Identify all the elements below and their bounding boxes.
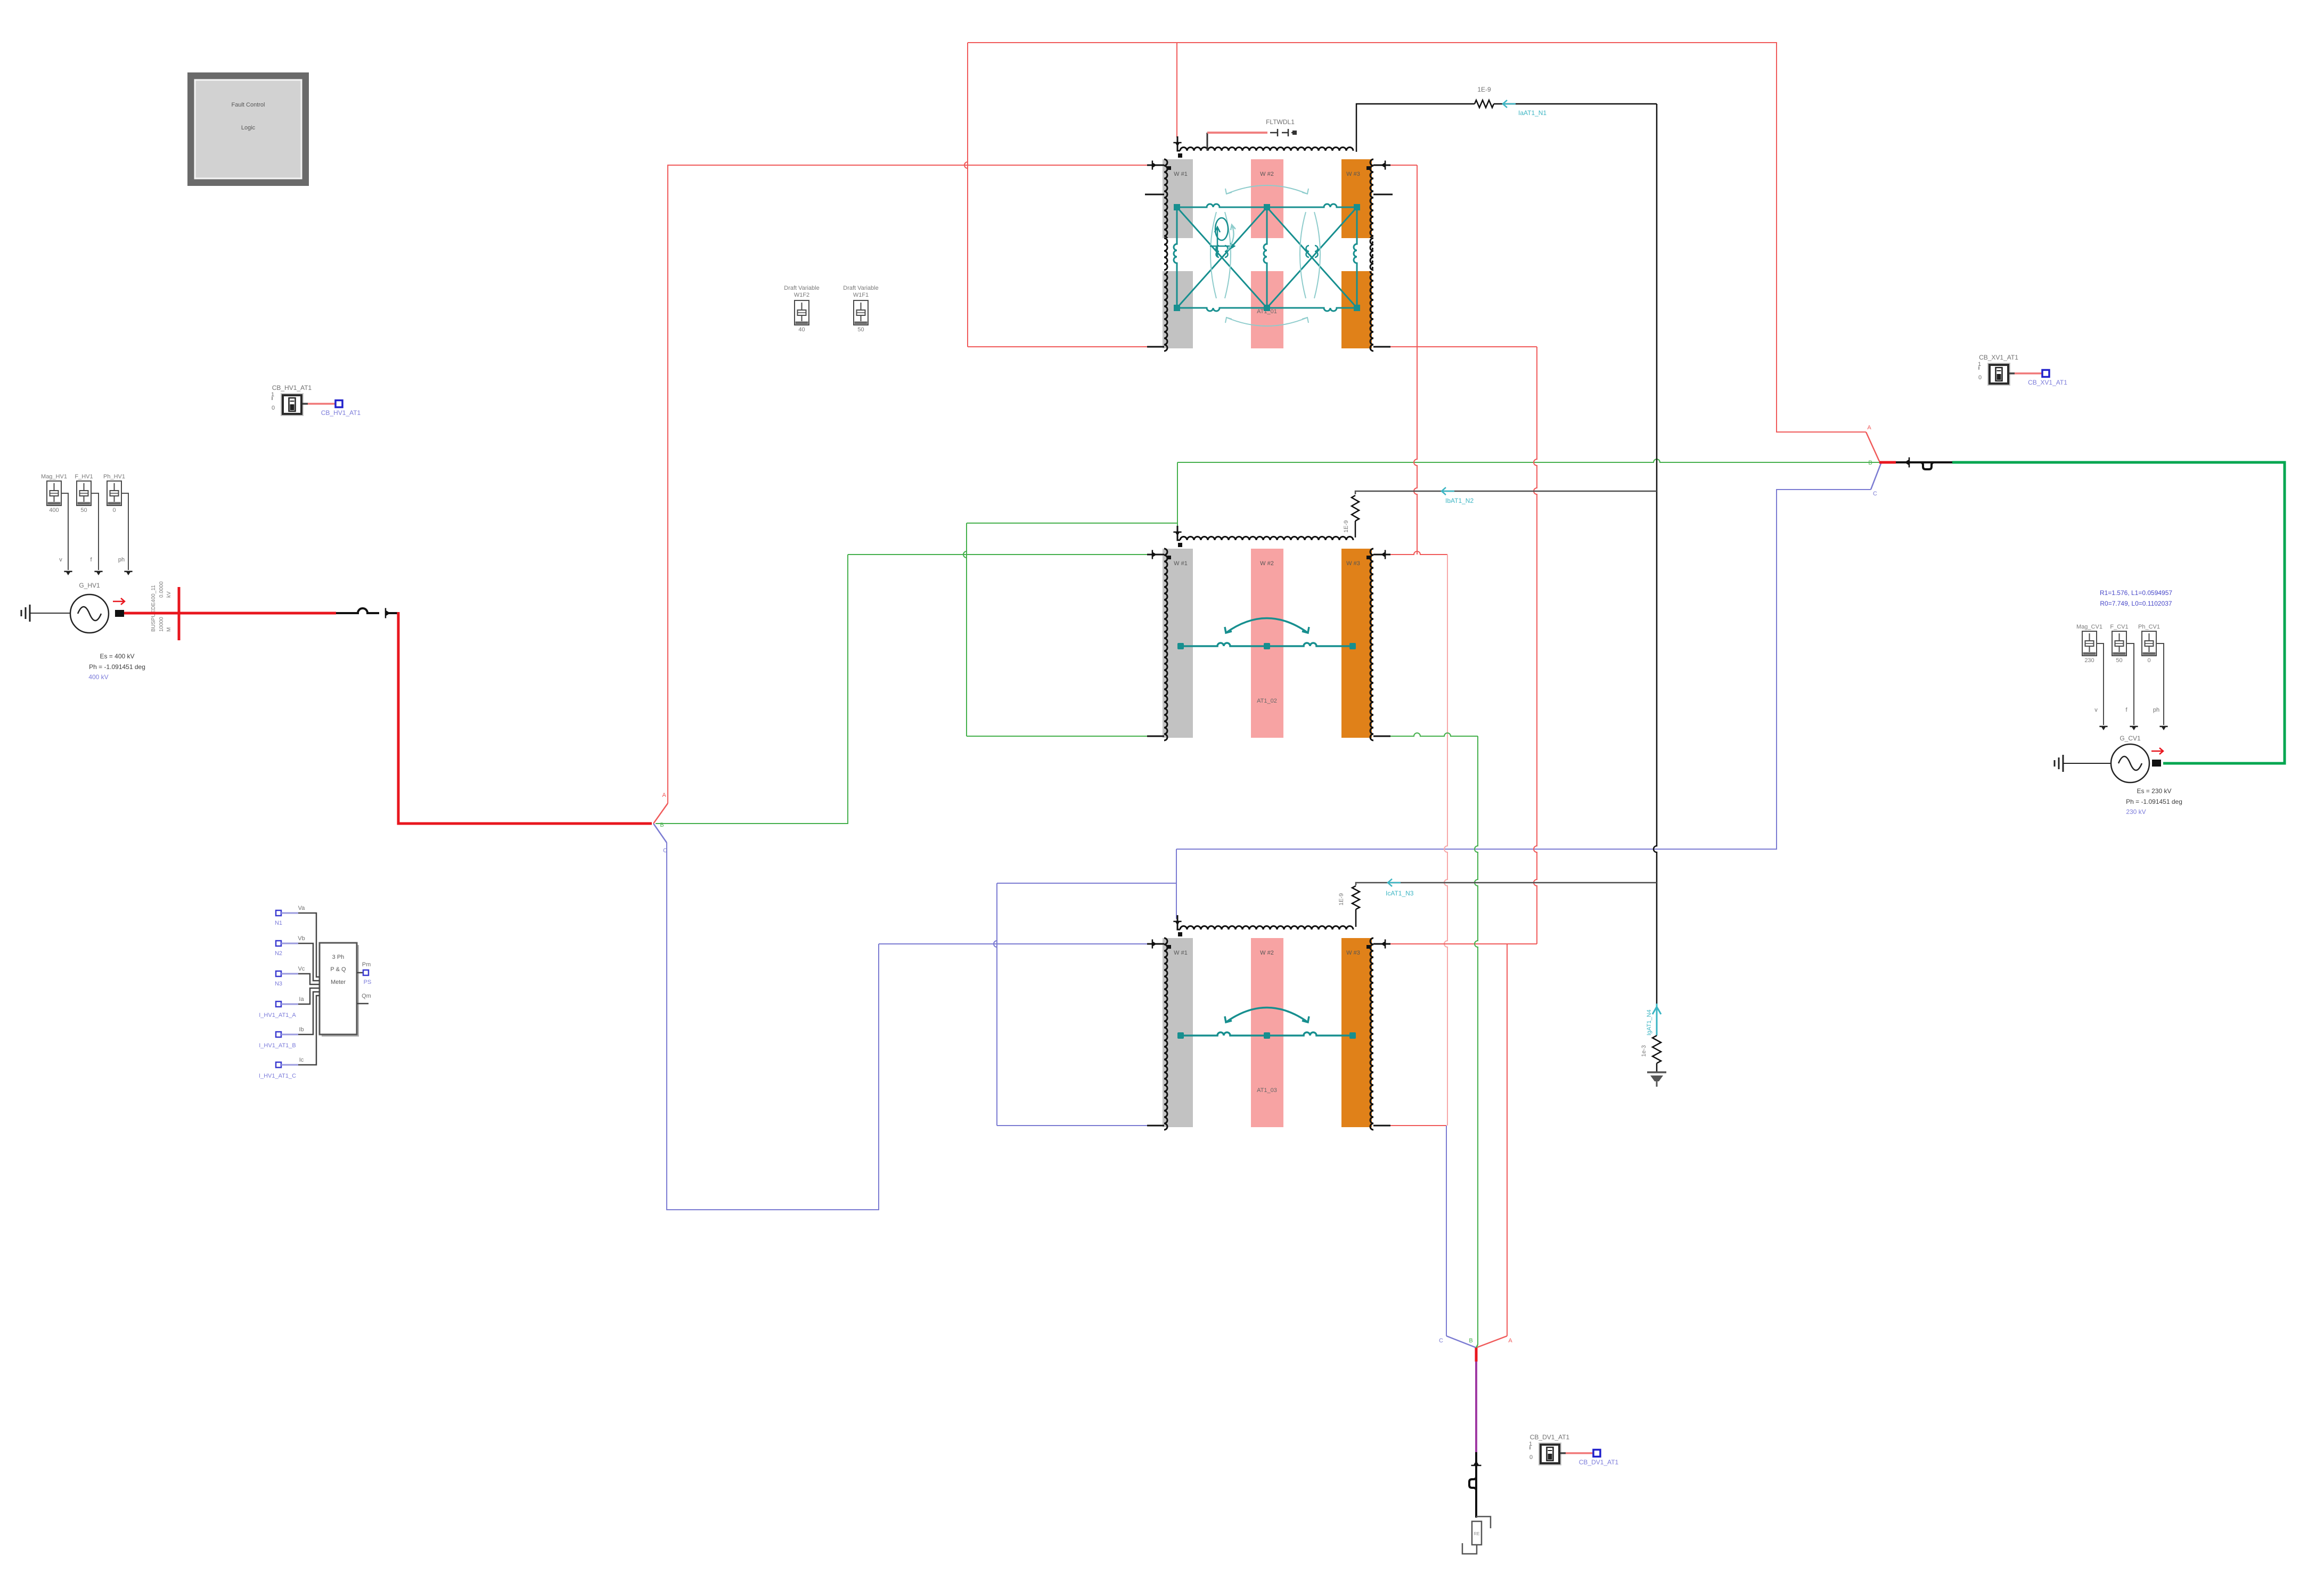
wire phase A feed (red) bbox=[668, 165, 1150, 803]
wire unit1 W3-top drop (red x=2661) bbox=[1390, 165, 1417, 555]
meter 3-phase P&Q bbox=[320, 943, 359, 1037]
svg-text:1e-3: 1e-3 bbox=[1641, 1045, 1647, 1057]
svg-text:N1: N1 bbox=[275, 920, 282, 926]
svg-text:W #1: W #1 bbox=[1174, 560, 1188, 567]
transformer AT1_01 winding W2 bar bbox=[1251, 159, 1283, 348]
svg-text:1E-9: 1E-9 bbox=[1338, 893, 1345, 906]
wire green main B (y=868) bbox=[1177, 459, 1879, 462]
svg-text:P & Q: P & Q bbox=[330, 966, 346, 973]
svg-text:10000: 10000 bbox=[159, 617, 165, 632]
svg-text:230: 230 bbox=[2084, 657, 2094, 664]
svg-text:Ia: Ia bbox=[299, 996, 304, 1003]
svg-text:CB_XV1_AT1: CB_XV1_AT1 bbox=[1979, 354, 2018, 361]
wire HV to breakout (thick red) bbox=[398, 612, 652, 824]
meter output Qm bbox=[357, 993, 371, 1004]
svg-text:CB_DV1_AT1: CB_DV1_AT1 bbox=[1579, 1458, 1619, 1466]
svg-text:IbAT1_N2: IbAT1_N2 bbox=[1445, 497, 1474, 504]
svg-text:0: 0 bbox=[1529, 1454, 1533, 1461]
transformer AT1_02 winding W3 bar bbox=[1341, 549, 1373, 740]
svg-text:CB_DV1_AT1: CB_DV1_AT1 bbox=[1530, 1433, 1570, 1441]
svg-text:1: 1 bbox=[1978, 361, 1981, 368]
slider W1F2 (draft variable) bbox=[784, 285, 819, 333]
transformer AT1_03 coupling icon bbox=[1181, 1008, 1353, 1036]
svg-text:Ph = -1.091451 deg: Ph = -1.091451 deg bbox=[89, 663, 145, 671]
slider Mag_CV1 bbox=[2076, 624, 2102, 664]
transformer AT1_01 label bbox=[1257, 308, 1277, 315]
svg-text:B: B bbox=[1868, 460, 1872, 466]
wire neutral unit3 row (gray y=1657) bbox=[1356, 883, 1657, 885]
transformer AT1_01 winding W1 bar bbox=[1163, 159, 1193, 351]
fault control logic block bbox=[187, 72, 309, 186]
svg-text:Ph_HV1: Ph_HV1 bbox=[103, 474, 125, 480]
transformer AT1_01 winding W3 bar bbox=[1341, 159, 1373, 351]
wire XV with current arrow (black) bbox=[1896, 458, 1952, 470]
transformer AT1_02 tertiary winding FLTWD bbox=[1173, 526, 1353, 547]
ground (G_HV1) bbox=[21, 605, 71, 622]
svg-text:0: 0 bbox=[2147, 657, 2150, 664]
svg-text:kV: kV bbox=[166, 591, 172, 598]
transformer AT1_02 winding W2 bar bbox=[1251, 549, 1283, 738]
wire neutral unit2 row (gray y=922) bbox=[1355, 491, 1657, 494]
wire phase C feed (blue) bbox=[667, 843, 1150, 1210]
ground (G_CV1) bbox=[2055, 755, 2111, 772]
transformer AT1_02 winding W1 bar bbox=[1163, 549, 1193, 740]
wire slider ph to G_HV1 bbox=[118, 493, 133, 575]
svg-text:Logic: Logic bbox=[241, 125, 256, 131]
transformer AT1_01 W1 terminals bbox=[1147, 160, 1164, 347]
svg-text:Draft Variable: Draft Variable bbox=[843, 285, 878, 291]
bus BUSPUEDE400_11 bbox=[151, 581, 179, 640]
svg-text:A: A bbox=[1508, 1338, 1512, 1344]
svg-text:G_CV1: G_CV1 bbox=[2120, 735, 2141, 742]
current label IaAT1_N1 bbox=[1503, 100, 1546, 117]
wire neutral purple bbox=[1475, 1348, 1478, 1452]
svg-text:Es = 230 kV: Es = 230 kV bbox=[2137, 787, 2171, 795]
svg-text:Vb: Vb bbox=[298, 935, 305, 942]
svg-text:R0=7.749, L0=0.1102037: R0=7.749, L0=0.1102037 bbox=[2100, 600, 2172, 607]
svg-text:B: B bbox=[1469, 1338, 1472, 1344]
meter input Vb bbox=[275, 935, 320, 981]
transformer AT1_01 W3 terminals bbox=[1373, 160, 1390, 347]
svg-text:IaAT1_N1: IaAT1_N1 bbox=[1518, 109, 1546, 117]
wire HV main (thick red) with current arrow bbox=[124, 608, 398, 618]
svg-text:N2: N2 bbox=[275, 950, 282, 957]
transformer AT1_01 mesh nodes bbox=[1174, 204, 1360, 311]
current label IbAT1_N2 bbox=[1442, 487, 1474, 504]
svg-text:PS: PS bbox=[364, 979, 372, 985]
svg-text:230 kV: 230 kV bbox=[2126, 808, 2146, 816]
wire slider v to G_HV1 bbox=[59, 493, 72, 575]
wire unit1 W3-bottom drop (red x=2886) bbox=[1390, 347, 1537, 944]
wire A drop to bottom breakout (red x=2830) bbox=[1507, 944, 1508, 1336]
svg-text:M: M bbox=[166, 627, 172, 632]
svg-text:Qm: Qm bbox=[362, 993, 371, 999]
svg-text:W #2: W #2 bbox=[1260, 560, 1274, 567]
line parameters text bbox=[2100, 589, 2172, 607]
svg-text:C: C bbox=[1439, 1338, 1443, 1344]
svg-text:0: 0 bbox=[272, 405, 275, 411]
svg-text:Fault Control: Fault Control bbox=[232, 102, 265, 108]
svg-text:40: 40 bbox=[798, 327, 805, 333]
transformer AT1_03 winding W1 bar bbox=[1163, 938, 1193, 1130]
transformer AT1_03 W1 terminals bbox=[1147, 939, 1164, 1126]
svg-text:1: 1 bbox=[271, 392, 274, 398]
svg-text:W #3: W #3 bbox=[1346, 171, 1360, 177]
transformer AT1_02 W3 terminals bbox=[1373, 550, 1390, 736]
resistor 1E-9 unit1 (horizontal) bbox=[1356, 86, 1657, 152]
svg-text:50: 50 bbox=[2116, 657, 2122, 664]
transformer AT1_01 winding stubs bbox=[1145, 194, 1393, 195]
svg-text:ph: ph bbox=[118, 557, 125, 563]
transformer AT1_01 tap-changer symbol bbox=[1210, 218, 1235, 257]
transformer AT1_03 label bbox=[1257, 1087, 1277, 1094]
wire phase B feed (green) bbox=[656, 555, 1150, 824]
fault FLTWDL1 bbox=[1207, 118, 1297, 151]
svg-text:CB_HV1_AT1: CB_HV1_AT1 bbox=[321, 409, 361, 417]
node XV breakout A/B/C bbox=[1867, 425, 1896, 497]
wire slider v to G_CV1 bbox=[2094, 643, 2107, 730]
svg-text:IcAT1_N3: IcAT1_N3 bbox=[1386, 890, 1414, 897]
svg-text:W1F2: W1F2 bbox=[794, 292, 809, 298]
svg-text:v: v bbox=[2094, 707, 2098, 713]
transformer AT1_03 winding W2 bar bbox=[1251, 938, 1283, 1127]
resistor 1E-9 unit2 (vertical) bbox=[1343, 495, 1359, 537]
slider F_CV1 bbox=[2110, 624, 2128, 664]
svg-text:RE: RE bbox=[1474, 1531, 1479, 1536]
svg-text:CB_HV1_AT1: CB_HV1_AT1 bbox=[272, 384, 312, 392]
wire unit1 FLT tap from top main (red) bbox=[1176, 43, 1177, 137]
svg-text:1: 1 bbox=[1529, 1441, 1532, 1447]
wire unit1 W1-bottom loop (red) to right breakout A bbox=[964, 43, 1879, 461]
wire slider ph to G_CV1 bbox=[2153, 643, 2168, 730]
svg-text:Ph = -1.091451 deg: Ph = -1.091451 deg bbox=[2126, 798, 2182, 805]
svg-text:0.0000: 0.0000 bbox=[159, 581, 165, 598]
svg-text:0: 0 bbox=[112, 507, 116, 514]
resistor 1E-9 unit3 (vertical) bbox=[1338, 886, 1360, 927]
wire slider f to G_CV1 bbox=[2125, 643, 2138, 730]
transformer AT1_02 coupling icon bbox=[1181, 618, 1353, 647]
breaker control CB_XV1_AT1 bbox=[1978, 354, 2067, 386]
wire unit3 W3-bottom to blue drop (x=2716) bbox=[1390, 1126, 1446, 1336]
transformer AT1_02 label bbox=[1257, 698, 1277, 704]
transformer AT1_03 winding W3 bar bbox=[1341, 938, 1373, 1130]
svg-text:ph: ph bbox=[2153, 707, 2159, 713]
svg-text:F_CV1: F_CV1 bbox=[2110, 624, 2128, 630]
svg-text:v: v bbox=[59, 557, 62, 563]
svg-text:Draft Variable: Draft Variable bbox=[784, 285, 819, 291]
svg-text:400 kV: 400 kV bbox=[88, 673, 108, 681]
slider W1F1 (draft variable) bbox=[843, 285, 878, 333]
svg-text:W #2: W #2 bbox=[1260, 950, 1274, 956]
svg-text:Meter: Meter bbox=[331, 979, 346, 985]
source G_HV1 bbox=[70, 582, 145, 681]
svg-text:A: A bbox=[1867, 425, 1871, 431]
svg-text:W #3: W #3 bbox=[1346, 950, 1360, 956]
svg-text:R1=1.576, L1=0.0594957: R1=1.576, L1=0.0594957 bbox=[2100, 589, 2172, 597]
svg-text:W #1: W #1 bbox=[1174, 171, 1188, 177]
breaker on neutral (arrow + squiggle) bbox=[1469, 1452, 1482, 1518]
wire unit2 W3-top row and pink drop (x=2718) bbox=[1390, 551, 1447, 1126]
wire unit3 W3-top row (red) bbox=[1390, 943, 1537, 944]
svg-text:C: C bbox=[1873, 491, 1877, 497]
svg-text:I_HV1_AT1_B: I_HV1_AT1_B bbox=[259, 1042, 296, 1049]
wire neutral vertical (x=3111) bbox=[1654, 104, 1657, 1004]
wire blue main C (y=1594) bbox=[1176, 490, 1871, 849]
svg-text:W #2: W #2 bbox=[1260, 171, 1274, 177]
svg-text:I_HV1_AT1_A: I_HV1_AT1_A bbox=[259, 1012, 296, 1018]
ground (neutral) bbox=[1647, 1072, 1666, 1087]
wire unit3 W1-bottom loop (blue) bbox=[994, 849, 1176, 1126]
svg-text:B: B bbox=[660, 822, 664, 828]
wire unit2 W1-bottom loop (green) bbox=[963, 462, 1177, 736]
slider Mag_HV1 bbox=[41, 474, 67, 514]
svg-text:IgAT1_N4: IgAT1_N4 bbox=[1646, 1009, 1652, 1036]
slider F_HV1 bbox=[75, 474, 93, 514]
meter input Ib bbox=[259, 992, 320, 1049]
svg-text:Ib: Ib bbox=[299, 1026, 304, 1033]
meter input Ia bbox=[259, 988, 320, 1018]
node HV breakout A/B/C bbox=[653, 792, 668, 854]
svg-text:AT1_03: AT1_03 bbox=[1257, 1087, 1277, 1094]
svg-text:Es = 400 kV: Es = 400 kV bbox=[100, 653, 134, 660]
svg-text:0: 0 bbox=[1978, 374, 1982, 381]
transformer AT1_03 tertiary winding FLTWD bbox=[1173, 915, 1353, 936]
current label IcAT1_N3 bbox=[1386, 879, 1414, 897]
transformer AT1_03 W3 terminals bbox=[1373, 939, 1390, 1126]
breaker control CB_HV1_AT1 bbox=[271, 384, 361, 417]
slider Ph_HV1 bbox=[103, 474, 125, 514]
wire right breakout C diagonal bbox=[1871, 463, 1881, 490]
svg-text:1E-9: 1E-9 bbox=[1477, 86, 1491, 93]
svg-text:Mag_CV1: Mag_CV1 bbox=[2076, 624, 2102, 630]
svg-text:AT1_02: AT1_02 bbox=[1257, 698, 1277, 704]
svg-text:W #3: W #3 bbox=[1346, 560, 1360, 567]
svg-text:F_HV1: F_HV1 bbox=[75, 474, 93, 480]
svg-text:3 Ph: 3 Ph bbox=[332, 954, 345, 960]
svg-text:N3: N3 bbox=[275, 981, 282, 987]
resistor 1e-3 grounding bbox=[1641, 1036, 1661, 1072]
svg-text:Mag_HV1: Mag_HV1 bbox=[41, 474, 67, 480]
svg-text:FLTWDL1: FLTWDL1 bbox=[1266, 118, 1295, 126]
svg-text:Vc: Vc bbox=[298, 966, 305, 972]
transformer AT1_01 flux arcs (light) bbox=[1210, 185, 1320, 326]
node DV breakout A/B/C bbox=[1439, 1336, 1512, 1348]
breaker control CB_DV1_AT1 bbox=[1529, 1433, 1619, 1466]
meter output Pm bbox=[357, 961, 371, 985]
transformer AT1_01 UMEC core mesh bbox=[1174, 204, 1357, 311]
svg-text:W #1: W #1 bbox=[1174, 950, 1188, 956]
svg-text:Ph_CV1: Ph_CV1 bbox=[2138, 624, 2160, 630]
svg-text:Va: Va bbox=[298, 905, 306, 911]
svg-text:G_HV1: G_HV1 bbox=[79, 582, 100, 589]
transformer AT1_01 tertiary winding FLTWD bbox=[1173, 136, 1353, 158]
source G_CV1 bbox=[2111, 735, 2182, 816]
svg-text:50: 50 bbox=[857, 327, 864, 333]
transformer AT1_02 W1 terminals bbox=[1147, 550, 1164, 736]
transformer AT1_01 white core band bbox=[1163, 238, 1373, 271]
meter input Va bbox=[275, 905, 320, 977]
svg-text:I_HV1_AT1_C: I_HV1_AT1_C bbox=[259, 1073, 296, 1079]
meter input Vc bbox=[275, 966, 320, 987]
wire XV main (thick green) to G_CV1 bbox=[1952, 462, 2285, 763]
svg-text:A: A bbox=[662, 792, 666, 798]
svg-text:Pm: Pm bbox=[362, 961, 371, 968]
wire slider f to G_HV1 bbox=[90, 493, 102, 575]
slider Ph_CV1 bbox=[2138, 624, 2160, 664]
svg-text:50: 50 bbox=[80, 507, 87, 514]
svg-text:BUSPUEDE400_11: BUSPUEDE400_11 bbox=[151, 585, 157, 632]
meter input Ic bbox=[259, 996, 320, 1079]
svg-text:W1F1: W1F1 bbox=[853, 292, 869, 298]
svg-text:CB_XV1_AT1: CB_XV1_AT1 bbox=[2028, 379, 2067, 386]
wire unit2 W3-bottom (green x=2775) bbox=[1390, 733, 1478, 1344]
grounding resistor RE bbox=[1462, 1517, 1491, 1554]
svg-text:1E-9: 1E-9 bbox=[1343, 520, 1349, 533]
svg-text:400: 400 bbox=[49, 507, 59, 514]
current label IgAT1_N4 (cyan vertical) bbox=[1646, 1004, 1661, 1036]
svg-text:Ic: Ic bbox=[299, 1057, 304, 1063]
